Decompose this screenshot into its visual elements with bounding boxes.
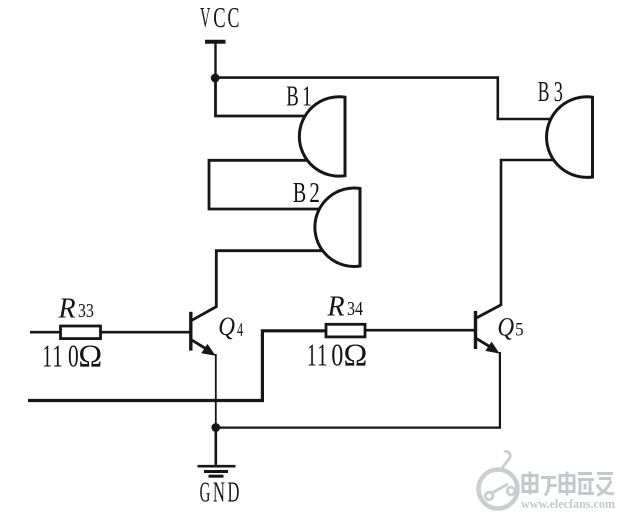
wire B3 lower input down to Q5 collector [501, 160, 557, 306]
VCC power bar [205, 40, 226, 44]
svg-text:R33: R33 [58, 294, 94, 325]
svg-text:1: 1 [317, 337, 327, 372]
svg-text:V: V [200, 2, 210, 34]
label Q5 [497, 313, 523, 342]
gate B1 [299, 97, 345, 176]
label B1 [286, 81, 311, 112]
svg-text:1: 1 [302, 81, 312, 112]
svg-text:C: C [228, 3, 240, 34]
svg-text:Ω: Ω [344, 337, 368, 373]
svg-text:Ω: Ω [78, 338, 102, 374]
node junction dot at VCC [211, 74, 220, 83]
wire R33 to Q4 base [101, 331, 190, 334]
watermark logo circle [479, 451, 518, 508]
svg-text:B: B [293, 178, 306, 209]
transistor Q5 [476, 305, 502, 354]
transistor Q4 [191, 307, 217, 356]
wire bottom-left input up to R34 [28, 331, 326, 401]
svg-text:G: G [200, 476, 211, 507]
label B2 [293, 178, 320, 209]
svg-text:1: 1 [52, 338, 62, 373]
ground symbol [198, 466, 236, 476]
svg-text:2: 2 [309, 178, 320, 208]
svg-text:D: D [228, 477, 240, 507]
label 110 ohm for R33 [42, 338, 102, 374]
svg-text:N: N [213, 476, 225, 508]
wire VCC stem [214, 43, 216, 78]
svg-text:0: 0 [331, 338, 343, 373]
svg-text:1: 1 [307, 337, 317, 373]
svg-text:Q: Q [218, 313, 235, 342]
label Q4 [218, 313, 243, 342]
svg-text:0: 0 [68, 338, 79, 373]
svg-text:R34: R34 [327, 292, 364, 323]
label VCC [200, 2, 239, 34]
wire top rail from VCC node to B3 corner [216, 78, 557, 119]
svg-text:B: B [286, 82, 299, 113]
gate B2 [315, 188, 360, 266]
node junction dot at ground [211, 423, 220, 432]
wire B2 lower input to Q4 collector [216, 251, 326, 308]
wire B1 lower input to B2 top input [209, 160, 325, 209]
svg-text:5: 5 [515, 319, 523, 340]
wire VCC node down to B1 top input [216, 78, 313, 116]
label GND [200, 476, 240, 508]
resistor R34 body [326, 324, 365, 337]
label 110 ohm for R34 [307, 337, 367, 374]
svg-text:www.elecfans.com: www.elecfans.com [521, 496, 615, 511]
gate B3 [547, 97, 593, 178]
wire R34 to Q5 base [365, 329, 475, 332]
svg-text:1: 1 [42, 338, 52, 374]
watermark chinese text 电子发烧友 [523, 472, 614, 496]
svg-text:3: 3 [554, 77, 563, 108]
wire ground stem [215, 428, 218, 466]
wire Q4 emitter down [215, 354, 217, 428]
svg-text:C: C [213, 4, 225, 35]
label B3 [538, 77, 563, 108]
wire ground rail to Q5 emitter [216, 352, 500, 428]
svg-text:B: B [538, 77, 550, 108]
svg-text:Q: Q [497, 313, 514, 342]
wire input to R33 [30, 331, 60, 334]
resistor R33 body [61, 326, 101, 339]
svg-text:4: 4 [237, 318, 243, 341]
